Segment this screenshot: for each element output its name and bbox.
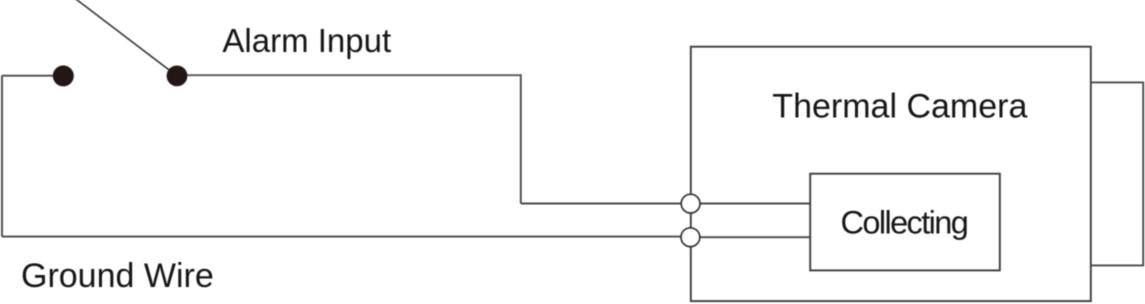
wire: alarm input horizontal from switch [177, 74, 521, 76]
camera lens block on right side [1091, 82, 1143, 265]
wire: segment to switch left contact [2, 75, 58, 77]
switch S1 lever arm [75, 0, 178, 76]
wire: ground wire horizontal run [2, 236, 690, 238]
wire: alarm input run to camera terminal [521, 203, 690, 205]
terminal node: alarm input port [681, 194, 700, 213]
switch S1 right contact dot [167, 66, 188, 87]
collecting module box [810, 174, 1000, 271]
wire: left vertical riser (ground return) [1, 76, 3, 237]
svg-text:Alarm Input: Alarm Input [222, 22, 391, 59]
svg-text:Ground Wire: Ground Wire [21, 257, 214, 295]
wire: alarm terminal to collecting module [691, 203, 810, 205]
wire: alarm input vertical drop [520, 74, 522, 203]
svg-text:Collecting: Collecting [841, 205, 968, 241]
terminal node: ground port [681, 228, 700, 247]
wire: ground terminal to collecting module [691, 236, 810, 238]
svg-text:Thermal Camera: Thermal Camera [772, 87, 1027, 125]
thermal camera enclosure box [691, 47, 1091, 301]
switch S1 left contact dot [53, 65, 74, 86]
